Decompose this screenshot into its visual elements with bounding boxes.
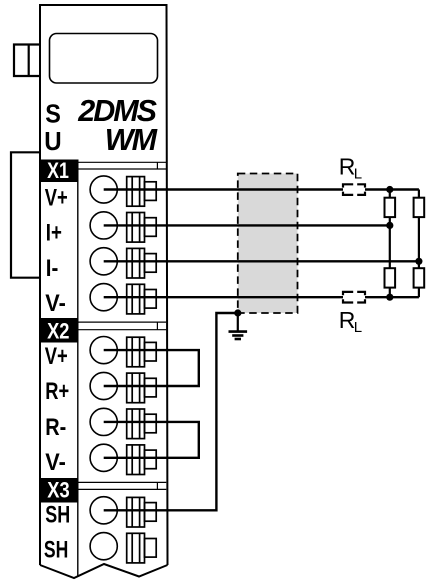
clamp contact X3 SH (2)	[127, 533, 157, 563]
svg-text:U: U	[44, 128, 61, 156]
terminal opening X1 V+	[90, 176, 117, 203]
X1 strip	[78, 162, 166, 169]
shield cable box	[238, 174, 298, 314]
junction node C	[415, 258, 422, 265]
resistor bridge left bottom	[385, 268, 396, 287]
ground	[229, 309, 248, 339]
svg-text:L: L	[354, 166, 362, 183]
mounting tab	[14, 45, 40, 77]
svg-text:V+: V+	[45, 343, 68, 370]
svg-text:V+: V+	[45, 184, 68, 211]
clamp contact X2 R+	[127, 373, 157, 403]
X2 strip	[78, 322, 166, 330]
load resistor RL top	[343, 184, 365, 195]
wire I- X1	[104, 260, 419, 262]
svg-text:R+: R+	[45, 378, 69, 405]
wire SH to shield	[104, 313, 238, 510]
svg-text:SH: SH	[44, 537, 68, 564]
clamp contact X1 I-	[127, 248, 157, 278]
clamp contact X2 R-	[127, 409, 157, 439]
X3 strip	[78, 482, 166, 489]
svg-text:X3: X3	[47, 477, 69, 502]
terminal opening X2 R-	[90, 408, 117, 435]
resistor bridge right top	[414, 198, 425, 217]
resistor bridge left top	[385, 198, 396, 217]
terminal opening X2 R+	[90, 372, 117, 399]
wire loop X2 R-/V-	[104, 422, 199, 458]
X2 header	[40, 318, 78, 343]
svg-text:V-: V-	[45, 290, 66, 317]
clamp contact X3 SH	[127, 497, 157, 527]
wire V+ X1	[104, 188, 343, 190]
load resistor RL bottom	[343, 292, 365, 303]
X1 header	[40, 160, 78, 183]
wire loop X2 V+/R+	[104, 350, 199, 386]
svg-text:X1: X1	[47, 158, 69, 183]
svg-text:I-: I-	[46, 255, 59, 282]
X3 header	[40, 478, 78, 503]
wire I+ X1	[104, 224, 390, 226]
svg-text:WM: WM	[105, 123, 158, 157]
terminal opening X2 V-	[90, 444, 117, 471]
svg-text:X2: X2	[47, 318, 69, 343]
clamp contact X2 V-	[127, 445, 157, 475]
terminal opening X1 V-	[90, 284, 117, 311]
clamp contact X1 V-	[127, 284, 157, 314]
wire left rail segments	[389, 190, 391, 198]
clamp contact X1 V+	[127, 177, 157, 207]
module outline	[40, 5, 168, 578]
junction node B	[386, 222, 393, 229]
junction node D	[386, 294, 393, 301]
wire V- X1	[104, 296, 343, 298]
svg-text:V-: V-	[45, 449, 66, 476]
terminal opening X3 SH	[90, 497, 117, 524]
left bracket	[11, 152, 40, 277]
display window	[50, 34, 158, 84]
svg-text:I+: I+	[46, 220, 62, 247]
terminal opening X1 I-	[90, 248, 117, 275]
clamp contact X2 V+	[127, 337, 157, 367]
label strip separator	[77, 160, 79, 577]
terminal opening X3 SH (2)	[90, 533, 117, 560]
svg-text:R-: R-	[45, 414, 66, 441]
terminal opening X1 I+	[90, 212, 117, 239]
svg-text:L: L	[354, 319, 362, 336]
clamp contact X1 I+	[127, 213, 157, 243]
wire right rail segments	[418, 190, 420, 198]
junction node A	[386, 186, 393, 193]
svg-text:SH: SH	[45, 502, 70, 529]
resistor bridge right bottom	[414, 268, 425, 287]
terminal opening X2 V+	[90, 337, 117, 364]
svg-text:S: S	[45, 101, 61, 129]
